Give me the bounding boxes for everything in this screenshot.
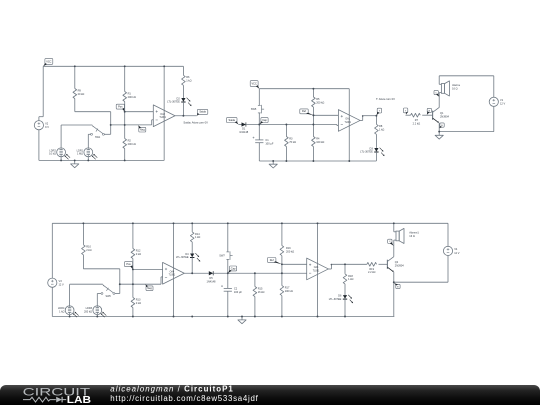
svg-text:TL081: TL081 bbox=[344, 122, 351, 124]
svg-text:LTL-307EE: LTL-307EE bbox=[329, 297, 342, 301]
svg-text:Pos: Pos bbox=[126, 263, 131, 266]
svg-text:D3: D3 bbox=[370, 146, 374, 150]
svg-text:D4: D4 bbox=[185, 252, 189, 256]
svg-text:Cap: Cap bbox=[262, 119, 267, 122]
svg-text:12 V: 12 V bbox=[454, 251, 460, 255]
svg-text:20 kΩ: 20 kΩ bbox=[78, 92, 85, 96]
svg-text:16 Ω: 16 Ω bbox=[409, 234, 415, 238]
svg-text:200 kΩ: 200 kΩ bbox=[84, 310, 92, 314]
svg-text:TL081: TL081 bbox=[159, 117, 166, 119]
svg-text:D2: D2 bbox=[177, 96, 181, 100]
svg-text:R15: R15 bbox=[258, 286, 263, 290]
svg-text:2N3904: 2N3904 bbox=[395, 264, 405, 268]
svg-text:R12: R12 bbox=[136, 248, 141, 252]
svg-text:100 µF: 100 µF bbox=[265, 141, 273, 145]
svg-text:2.2 kΩ: 2.2 kΩ bbox=[368, 270, 376, 274]
svg-text:LDR3: LDR3 bbox=[86, 306, 93, 310]
svg-text:SW7: SW7 bbox=[219, 254, 225, 258]
svg-text:OA2: OA2 bbox=[160, 113, 165, 116]
svg-text:1N4148: 1N4148 bbox=[207, 280, 217, 284]
svg-text:Alarme1: Alarme1 bbox=[409, 231, 419, 235]
svg-text:R3: R3 bbox=[289, 136, 293, 140]
svg-text:200 kΩ: 200 kΩ bbox=[128, 142, 136, 146]
svg-text:LTL-307EE: LTL-307EE bbox=[176, 255, 189, 259]
svg-text:2 kΩ: 2 kΩ bbox=[86, 248, 91, 252]
svg-text:C2: C2 bbox=[234, 286, 238, 290]
svg-text:1 kΩ: 1 kΩ bbox=[59, 310, 64, 314]
svg-text:1 kΩ: 1 kΩ bbox=[379, 128, 384, 132]
svg-text:C1: C1 bbox=[265, 138, 269, 142]
svg-text:Q1: Q1 bbox=[440, 111, 444, 115]
svg-text:VCC: VCC bbox=[46, 60, 51, 63]
svg-text:OA1: OA1 bbox=[345, 117, 350, 120]
svg-text:100 kΩ: 100 kΩ bbox=[285, 289, 293, 293]
svg-text:LDR4: LDR4 bbox=[58, 306, 65, 310]
svg-text:http://circuitlab.com/c8ew533s: http://circuitlab.com/c8ew533sa4jdf bbox=[110, 394, 258, 403]
svg-text:12 V: 12 V bbox=[500, 102, 506, 106]
svg-text:Saida: Saida bbox=[229, 119, 236, 122]
svg-text:V1: V1 bbox=[500, 98, 504, 102]
svg-text:LTL-307EE: LTL-307EE bbox=[167, 100, 180, 104]
svg-text:2.2 kΩ: 2.2 kΩ bbox=[413, 121, 421, 125]
svg-text:2 kΩ: 2 kΩ bbox=[136, 252, 141, 256]
svg-text:alicealongman / CircuitoP1: alicealongman / CircuitoP1 bbox=[110, 385, 233, 394]
svg-text:16 Ω: 16 Ω bbox=[452, 87, 458, 91]
svg-text:R8: R8 bbox=[379, 124, 383, 128]
svg-text:Pos: Pos bbox=[118, 106, 123, 109]
svg-text:R17: R17 bbox=[285, 286, 290, 290]
svg-text:VCC: VCC bbox=[252, 82, 257, 85]
svg-text:Q2: Q2 bbox=[395, 260, 399, 264]
svg-text:Saida: Ativa com 0V: Saida: Ativa com 0V bbox=[183, 120, 208, 124]
svg-text:R18: R18 bbox=[348, 274, 353, 278]
svg-text:V4: V4 bbox=[454, 247, 458, 251]
svg-text:Alarme: Alarme bbox=[452, 83, 461, 87]
svg-text:D5: D5 bbox=[209, 276, 213, 280]
svg-text:OA4: OA4 bbox=[170, 270, 175, 273]
svg-text:Cap: Cap bbox=[231, 267, 236, 270]
svg-text:Ref: Ref bbox=[270, 259, 274, 262]
svg-text:1 MΩ: 1 MΩ bbox=[77, 152, 83, 156]
svg-text:200 kΩ: 200 kΩ bbox=[128, 95, 136, 99]
svg-text:LAB: LAB bbox=[67, 395, 91, 405]
svg-text:100 µF: 100 µF bbox=[234, 290, 242, 294]
svg-text:R16: R16 bbox=[286, 246, 291, 250]
svg-text:100 kΩ: 100 kΩ bbox=[316, 140, 324, 144]
svg-text:R2: R2 bbox=[128, 138, 132, 142]
svg-text:R6: R6 bbox=[186, 75, 190, 79]
svg-text:TL081: TL081 bbox=[313, 270, 320, 272]
svg-text:SW5: SW5 bbox=[251, 107, 257, 111]
svg-text:2N3904: 2N3904 bbox=[440, 114, 450, 118]
svg-text:Neg: Neg bbox=[140, 129, 145, 132]
svg-text:R19: R19 bbox=[369, 267, 374, 271]
svg-text:V2: V2 bbox=[45, 121, 49, 125]
svg-text:R7: R7 bbox=[415, 118, 419, 122]
svg-text:OA3: OA3 bbox=[314, 266, 319, 269]
svg-text:D1: D1 bbox=[242, 126, 246, 130]
svg-text:1 kΩ: 1 kΩ bbox=[195, 235, 200, 239]
svg-text:R13: R13 bbox=[136, 297, 141, 301]
svg-text:9 V: 9 V bbox=[45, 125, 49, 129]
svg-text:2 kΩ: 2 kΩ bbox=[136, 301, 141, 305]
svg-text:R10: R10 bbox=[86, 245, 91, 249]
svg-text:R1: R1 bbox=[128, 91, 132, 95]
svg-text:200 kΩ: 200 kΩ bbox=[316, 100, 324, 104]
svg-text:TL081: TL081 bbox=[169, 275, 176, 277]
svg-text:1N4148: 1N4148 bbox=[239, 130, 249, 134]
svg-text:200 kΩ: 200 kΩ bbox=[286, 249, 294, 253]
svg-text:10 kΩ: 10 kΩ bbox=[49, 152, 56, 156]
svg-text:R5: R5 bbox=[316, 97, 320, 101]
svg-text:Neg: Neg bbox=[147, 287, 152, 290]
svg-text:T: Ativa com 0V: T: Ativa com 0V bbox=[376, 97, 395, 101]
svg-text:R9: R9 bbox=[78, 88, 82, 92]
svg-text:LDR2: LDR2 bbox=[49, 148, 56, 152]
svg-text:LTL-307EE: LTL-307EE bbox=[360, 150, 373, 154]
svg-text:16 kΩ: 16 kΩ bbox=[258, 290, 265, 294]
svg-text:SW6: SW6 bbox=[106, 295, 112, 298]
svg-text:SW1: SW1 bbox=[95, 136, 101, 139]
svg-text:1 kΩ: 1 kΩ bbox=[186, 79, 191, 83]
svg-text:LDR1: LDR1 bbox=[77, 148, 84, 152]
svg-text:1 kΩ: 1 kΩ bbox=[348, 277, 353, 281]
svg-text:R14: R14 bbox=[195, 232, 200, 236]
svg-text:D6: D6 bbox=[338, 293, 342, 297]
svg-text:Saida: Saida bbox=[199, 111, 206, 114]
svg-text:V3: V3 bbox=[59, 279, 63, 283]
svg-text:12 V: 12 V bbox=[59, 283, 65, 287]
svg-text:76 kΩ: 76 kΩ bbox=[289, 140, 296, 144]
svg-text:Ref: Ref bbox=[302, 110, 306, 113]
svg-text:R4: R4 bbox=[316, 136, 320, 140]
